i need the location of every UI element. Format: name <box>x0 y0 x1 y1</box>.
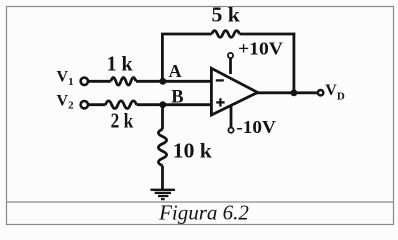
svg-text:5 k: 5 k <box>212 3 241 27</box>
op-amp U1 <box>211 68 257 115</box>
wire feedback top right <box>240 33 296 36</box>
terminal V2 <box>81 101 88 108</box>
resistor R 10k <box>158 129 166 166</box>
terminal VD <box>318 90 323 95</box>
svg-text:+10V: +10V <box>238 39 283 59</box>
wire feedback left vertical <box>161 34 164 81</box>
resistor R 1k <box>111 78 136 86</box>
wire R 2k to op-amp non-inverting input <box>137 103 213 106</box>
svg-text:10 k: 10 k <box>173 139 212 163</box>
svg-text:A: A <box>169 61 182 81</box>
node B <box>159 101 166 108</box>
ground <box>151 190 176 199</box>
power wire +10V <box>229 58 232 74</box>
wire op-amp output <box>256 91 318 94</box>
wire R 1k to op-amp inverting input <box>136 80 213 83</box>
wire R 10k to ground <box>161 166 164 190</box>
svg-text:2 k: 2 k <box>111 109 134 133</box>
svg-text:-10V: -10V <box>236 117 276 137</box>
terminal V1 <box>81 78 88 85</box>
power wire -10V <box>230 104 233 128</box>
node output junction <box>291 89 298 96</box>
resistor R 5k <box>212 31 240 38</box>
wire node B down to R 10k <box>161 105 164 130</box>
svg-text:1 k: 1 k <box>107 51 133 75</box>
svg-text:Figura 6.2: Figura 6.2 <box>158 201 249 225</box>
svg-text:B: B <box>171 88 183 108</box>
terminal -10V <box>228 128 233 133</box>
resistor R 2k <box>106 101 137 109</box>
node A <box>159 78 166 85</box>
wire feedback top left <box>161 33 212 36</box>
wire V1 to R 1k <box>89 80 111 83</box>
terminal +10V <box>228 53 233 58</box>
wire V2 to R 2k <box>89 103 106 106</box>
wire feedback right vertical <box>292 33 295 93</box>
